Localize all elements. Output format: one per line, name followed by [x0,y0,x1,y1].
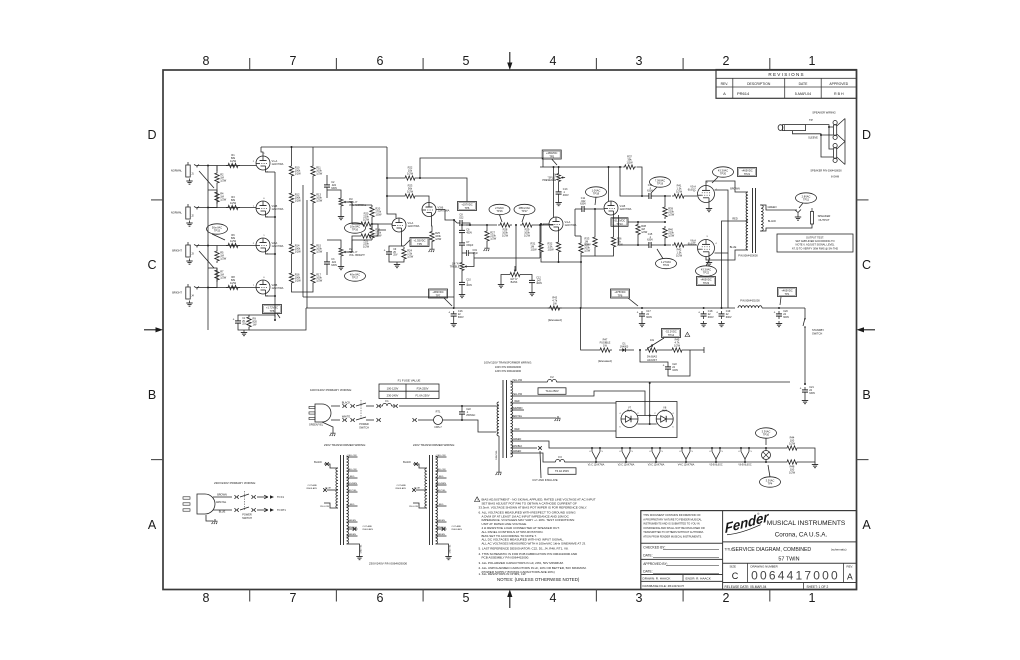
wire tap GREEN [511,452,525,454]
resistor R41 [672,184,686,199]
svg-text:R B H: R B H [834,92,844,96]
wire [216,246,218,250]
junction [580,307,582,309]
capacitor C20 [774,310,790,319]
svg-text:PCB ASSEMBLY P/N 0064415000.: PCB ASSEMBLY P/N 0064415000. [482,556,530,560]
chassis ground R27 [484,246,490,251]
svg-text:1/2W: 1/2W [220,276,227,280]
ground C20 [776,321,782,327]
junction [207,207,209,209]
Fender script logo [721,509,773,537]
svg-text:A: A [148,518,157,532]
wire B+ rail to V3 [313,146,387,148]
wire [291,256,293,271]
svg-text:BLACK: BLACK [342,401,351,405]
wire [540,224,542,240]
wire [654,195,671,197]
svg-text:400V: 400V [466,284,472,287]
wire tap GREEN [436,535,447,537]
svg-text:RED: RED [350,504,355,506]
junction [291,146,293,148]
svg-text:TP16: TP16 [496,209,503,213]
wire blue [213,509,232,511]
svg-text:12AX7WA: 12AX7WA [272,207,284,211]
svg-text:3. ALL POLARIZED CAPACITORS IN: 3. ALL POLARIZED CAPACITORS IN uF, 20%, … [479,561,564,565]
ground at J4 [186,301,192,307]
junction [540,223,542,225]
wire [558,167,560,172]
wire [238,315,249,318]
svg-text:C: C [862,258,871,272]
test point TP20 [713,167,734,177]
heater filament V3-C [648,447,665,466]
ground C18 [700,321,706,327]
wire [291,205,293,242]
wire [637,237,639,246]
wire [348,236,360,252]
cut mark GRN/BLK [538,446,542,450]
wire [257,496,263,498]
svg-text:BASS: BASS [511,281,518,284]
svg-text:TP18: TP18 [593,192,600,196]
svg-text:APPROVED: APPROVED [829,82,848,86]
test point TP6 [611,289,630,298]
svg-text:5: 5 [632,451,634,453]
svg-text:GRN/YEL: GRN/YEL [361,544,363,554]
resistor [247,315,258,329]
capacitor C1 [233,317,247,326]
wire [684,349,700,351]
wire [460,420,496,432]
wire [460,405,496,407]
svg-text:3: 3 [636,591,643,605]
svg-text:630V: 630V [331,187,337,190]
resistor [289,271,301,285]
leader TP19 [651,187,657,193]
resistor R29 [520,223,534,238]
svg-text:12AX7WA: 12AX7WA [438,209,450,213]
svg-text:1/2W: 1/2W [316,250,323,254]
rectifier enclosure [616,402,677,438]
ground at J3 [186,259,192,265]
svg-text:TP11: TP11 [803,198,810,202]
resistor R44 [785,436,799,451]
svg-text:TP16: TP16 [352,228,359,232]
wire [238,326,249,330]
wire V1-B cathode [266,215,276,217]
capacitor C22 [459,408,476,417]
svg-text:630V: 630V [331,264,337,267]
wire [389,246,404,249]
svg-text:ALL AC VOLTAGES MEASURED WITH: ALL AC VOLTAGES MEASURED WITH A 100mVAC … [482,542,587,546]
wire [531,286,533,291]
wire speaker sleeve [806,134,834,157]
svg-text:NOTES: (UNLESS OTHERWISE NOTE: NOTES: (UNLESS OTHERWISE NOTED) [497,577,580,582]
svg-text:+: + [448,311,450,315]
svg-text:R E V I S I O N S: R E V I S I O N S [768,72,803,77]
svg-text:RED: RED [439,504,444,506]
bias return stub [700,347,704,353]
triode V1-A [256,156,284,170]
wire input ground bus [207,165,209,330]
output transformer T2 secondary [761,205,763,231]
wire speaker sleeve stub 1 [820,134,833,136]
svg-text:DATABASE FILE: Z6149.SCH: DATABASE FILE: Z6149.SCH [643,584,684,588]
svg-text:1/2W: 1/2W [668,234,675,238]
wire [366,419,374,421]
resistor [548,240,561,254]
svg-text:2: 2 [723,591,730,605]
resistor [289,191,301,205]
svg-text:SWITCH: SWITCH [812,332,822,336]
svg-text:Corona, CA U.S.A.: Corona, CA U.S.A. [775,532,828,539]
svg-text:10k: 10k [650,339,655,342]
test point T12A 250V [538,388,566,395]
svg-text:1/2W: 1/2W [548,248,555,252]
ground C17 [639,321,645,327]
svg-text:TP20: TP20 [720,172,727,176]
svg-text:1/2W: 1/2W [524,234,531,238]
ground vol bright [338,264,344,270]
junction [371,223,373,225]
transformer T1 primary [496,402,499,436]
svg-text:YELLOW: YELLOW [347,469,357,471]
wire [804,395,806,398]
svg-text:GREEN: GREEN [437,520,445,522]
wire [208,190,217,204]
svg-text:5: 5 [662,451,664,453]
input jack J2 [171,204,199,219]
svg-text:4: 4 [649,451,651,453]
wire black primary [324,464,338,468]
svg-text:GRN/YEL: GRN/YEL [450,544,452,554]
svg-text:TP6: TP6 [465,206,470,210]
svg-text:B: B [862,388,870,402]
svg-text:1: 1 [263,235,265,237]
test point TP1 [778,288,797,297]
svg-text:1/2W: 1/2W [626,161,633,165]
svg-text:1/2W: 1/2W [230,239,237,243]
wire elevation reference run [303,296,454,298]
svg-text:YELLOW: YELLOW [436,469,446,471]
wire [340,208,342,214]
svg-text:TP4: TP4 [768,482,773,486]
svg-text:1/2W: 1/2W [674,344,681,348]
leader TP16 [500,215,503,222]
svg-text:TP10: TP10 [763,433,770,437]
svg-text:4: 4 [679,451,681,453]
wire [575,208,579,210]
svg-text:GREEN: GREEN [348,534,356,536]
svg-text:RED: RED [439,476,444,478]
junction [274,295,276,297]
svg-text:V4-C 12AX7WA: V4-C 12AX7WA [678,463,695,466]
wire tap GREEN [347,521,358,523]
junction [594,208,596,210]
svg-text:1/2W: 1/2W [641,230,648,234]
wire [558,197,560,200]
svg-text:6: 6 [263,277,265,279]
svg-text:GREEN: GREEN [348,520,356,522]
svg-text:CUT AND: CUT AND [363,525,373,528]
svg-text:SWITCH: SWITCH [359,426,369,429]
svg-text:230-240V: 230-240V [387,394,399,398]
svg-text:8-OHM: 8-OHM [831,176,839,179]
svg-text:PR614: PR614 [737,91,750,96]
ground bass [498,282,504,288]
ground treble [459,292,465,298]
svg-text:1/2W: 1/2W [220,257,227,261]
junction [461,419,463,421]
svg-text:1W: 1W [553,302,557,306]
wire yellow2 [524,395,536,397]
triode V4-B [604,201,632,215]
test point TP22 [696,266,717,276]
wire [539,225,541,258]
wire [581,249,595,256]
junction [637,244,639,246]
test point TP17 [345,271,366,281]
svg-text:GRN/BLK: GRN/BLK [512,445,523,448]
wire speaker green [760,205,797,210]
resistor R8 [226,275,240,290]
svg-text:BLACK: BLACK [403,461,411,464]
svg-text:1: 1 [809,591,816,605]
svg-text:T12A 250V: T12A 250V [545,389,559,393]
wire YELLOW to rectifier heaters [536,391,645,416]
junction [453,219,455,221]
wire V5-A plate (brown) [706,181,748,192]
power tube V5 [688,185,715,203]
svg-text:1/2W: 1/2W [363,245,370,249]
svg-text:APPROVED BY:: APPROVED BY: [643,562,667,566]
wire V4-B plate [608,167,610,201]
svg-text:1/2W: 1/2W [617,243,624,247]
resistor R21 [359,234,373,249]
wire tap YELLOW [347,456,358,458]
euro power switch [240,491,252,520]
wire signal node [466,224,497,226]
svg-text:1/2W: 1/2W [295,172,302,176]
euro connectors [235,495,256,512]
wire tap RED/BRN [511,409,525,411]
svg-text:D: D [862,128,871,142]
wire speaker black [760,224,812,231]
speaker output label [818,214,831,222]
svg-text:600V: 600V [726,316,732,319]
wire [257,509,263,511]
output test note box [777,234,853,252]
svg-text:GREEN/YEL: GREEN/YEL [309,424,324,427]
capacitor C16 [448,310,464,319]
svg-text:1/2W: 1/2W [375,213,382,217]
svg-text:1/2W: 1/2W [676,254,683,258]
wire tap YELLOW [436,470,447,472]
svg-text:+: + [774,311,776,315]
svg-text:1/2W: 1/2W [407,172,414,176]
resistor R27 [485,229,497,243]
wire tap GRN/BLK [347,528,358,530]
leader [444,298,452,306]
svg-text:J2: J2 [191,215,194,218]
resistor R23 [403,184,417,199]
junction [486,224,488,226]
test point TP14 [662,329,681,338]
resistor [289,164,301,178]
svg-text:DATE: DATE [799,82,809,86]
wire [373,224,386,230]
chassis ground V3-B [429,247,435,252]
svg-text:NORMAL: NORMAL [171,211,183,215]
svg-text:TP5: TP5 [549,154,554,158]
svg-text:+: + [716,311,718,315]
bias adjust pot R46 [645,339,659,362]
transformer T1 title [484,361,532,374]
ground [241,330,247,336]
svg-text:630V: 630V [580,203,586,206]
svg-text:TP14: TP14 [668,333,675,337]
wire cross-couple [574,209,576,236]
svg-text:V5-B 6L6GC: V5-B 6L6GC [709,464,723,466]
wire [249,315,275,317]
wire grn/yel [347,544,360,554]
grid reference labels [147,54,871,605]
svg-text:J4: J4 [191,295,194,298]
svg-text:SHEET: 1 OF 2: SHEET: 1 OF 2 [807,585,829,589]
wire wiper [469,258,475,267]
junction [765,447,767,449]
svg-text:100-120V: 100-120V [387,387,399,391]
wire [758,447,785,449]
triode V1-B [256,201,284,215]
wire [461,248,463,261]
capacitor C17 [637,310,653,319]
junction [608,166,610,168]
svg-text:6: 6 [377,54,384,68]
test point TP15 [207,224,228,234]
heater filament V4-C [678,447,695,466]
svg-text:SERVICE DIAGRAM, COMBINED: SERVICE DIAGRAM, COMBINED [732,547,811,553]
svg-text:TP8: TP8 [270,309,275,313]
svg-text:7: 7 [290,591,297,605]
wire [640,350,668,364]
capacitor C18 [698,310,714,319]
wire [366,405,374,407]
wire [348,202,360,224]
cut and insulate small [306,484,317,490]
svg-text:1/2W: 1/2W [316,172,323,176]
wire [326,252,328,259]
wire bias feed [581,308,598,350]
svg-text:1: 1 [263,153,265,155]
svg-text:2: 2 [253,161,255,163]
company name text [767,520,846,539]
wire grn/yel euro [206,515,213,521]
mains connectors 2 [377,404,398,408]
wire C19 to wiper [471,253,474,258]
leader [780,297,781,305]
svg-text:D: D [147,128,156,142]
wire [312,178,314,191]
svg-text:C: C [147,258,156,272]
wire [389,257,404,262]
resistor [370,226,382,240]
ground C16 [451,321,457,327]
wire [654,244,671,246]
leader TP9 [404,240,410,246]
svg-text:TP22: TP22 [703,271,710,275]
wire [461,288,463,293]
junction [207,287,209,289]
output transformer T2 primary [746,192,748,250]
test point TP23 [697,277,716,286]
wire blue primary [327,489,338,491]
wire [524,417,556,419]
mains connectors white [343,418,355,422]
leader [648,338,664,348]
svg-text:8: 8 [203,591,210,605]
junction [274,253,276,255]
wire speaker tip stub 1 [828,126,833,128]
wire [664,240,666,245]
wire [371,219,373,229]
transformer T1 core [503,380,507,458]
svg-text:OUTPUT TEST:: OUTPUT TEST: [806,235,824,239]
wire green/yel [322,422,333,431]
svg-text:0064417000: 0064417000 [751,569,840,583]
potentiometer R30 [508,266,522,284]
svg-text:DESCRIPTION: DESCRIPTION [747,82,771,86]
svg-text:V6-B 6L6GC: V6-B 6L6GC [738,464,752,466]
test point TP22 [656,258,677,268]
svg-text:1/2W: 1/2W [407,255,414,259]
svg-text:OUTPUT: OUTPUT [818,218,829,222]
svg-text:4: 4 [715,243,717,245]
wire tap GRN/BLK [436,528,447,530]
junction [641,307,643,309]
capacitor C14 [646,184,654,199]
svg-text:2: 2 [723,54,730,68]
svg-text:1/2W: 1/2W [375,234,382,238]
svg-text:SPEAKER: SPEAKER [818,214,831,218]
svg-text:V1-C 12AX7WA: V1-C 12AX7WA [588,463,605,466]
chassis ground euro [212,519,218,524]
svg-text:CHECKED BY:: CHECKED BY: [643,546,665,550]
power tube pin numbers [693,182,717,245]
svg-text:33.3mA. VOLTAGE SHOWN AT BIAS: 33.3mA. VOLTAGE SHOWN AT BIAS POT WIPER … [479,505,588,509]
svg-text:5U4: 5U4 [627,410,632,413]
svg-text:1/2W: 1/2W [789,442,796,446]
wire channel cross-coupling A [302,185,304,297]
svg-text:TP17: TP17 [521,209,528,213]
capacitor C8 [457,214,465,226]
ground V5-A cathode [706,206,712,212]
chassis ground CT [555,416,561,421]
svg-text:MUSICAL INSTRUMENTS: MUSICAL INSTRUMENTS [767,520,846,527]
svg-text:1/2W: 1/2W [363,218,370,222]
junction [649,423,651,425]
junction [558,261,560,263]
svg-text:GREEN: GREEN [513,450,522,453]
wire grn/yel [436,544,449,554]
junction [664,244,666,246]
cut mark [412,488,416,492]
cut mark [442,527,446,531]
svg-text:1. ALL RESISTORS IN OHMS, 1W: 1. ALL RESISTORS IN OHMS, 1W [479,572,526,576]
capacitor C19 [462,249,478,256]
wire jack shorting contact 1 [199,171,214,188]
svg-text:INSTRUMENTS AND IS SUBMITTED T: INSTRUMENTS AND IS SUBMITTED TO YOU IN [643,522,700,526]
